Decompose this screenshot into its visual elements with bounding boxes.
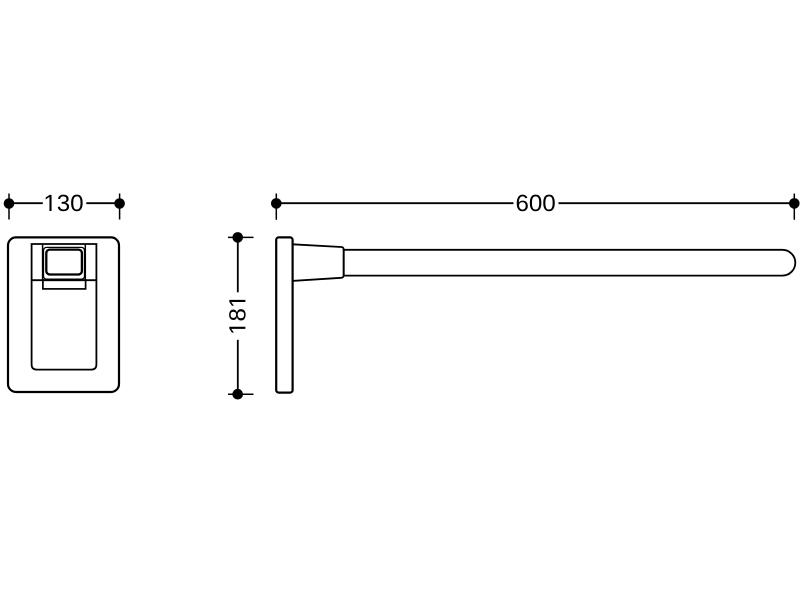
- front view: wall plate outer rounded rectangle: [8, 237, 119, 392]
- dimension 130: extension tick left: [8, 194, 10, 220]
- side view: mounting block trapezoid: [293, 244, 344, 281]
- dimension 130: dimension line left segment: [9, 202, 43, 204]
- front view: recess right vertical line: [84, 244, 86, 280]
- front view: pocket thin rounded outline: [44, 247, 85, 279]
- front view: horizontal shoulder line: [32, 279, 97, 281]
- dimension 600: extension tick right: [793, 194, 795, 220]
- dimension 130: terminator dot left: [4, 198, 15, 209]
- dimension 130: dimension line right segment: [86, 202, 119, 204]
- front view: recess left vertical line: [42, 244, 44, 280]
- dimension 181: terminator dot top: [232, 232, 243, 243]
- dimension 181: dimension line top segment: [237, 237, 239, 292]
- front view: fixing cover square (thick): [46, 250, 82, 275]
- front view: mount body (sharp top corners, rounded bottom): [32, 244, 97, 370]
- dimension 181: extension tick top: [228, 236, 254, 238]
- dimension 130: value label: [46, 195, 83, 212]
- dimension 181: value label (rotated): [229, 300, 246, 333]
- dimension 181: dimension line bottom segment: [237, 340, 239, 394]
- dimension 600: terminator dot left: [271, 198, 282, 209]
- dimension 181: terminator dot bottom: [232, 389, 243, 400]
- dimension 600: dimension line left segment: [276, 202, 513, 204]
- dimension 181: extension tick bottom: [228, 393, 254, 395]
- dimension 130: terminator dot right: [114, 198, 125, 209]
- dimension 600: extension tick left: [275, 194, 277, 220]
- dimension 130: extension tick right: [119, 194, 121, 220]
- front view: sleeve rectangle below square: [43, 280, 86, 289]
- dimension 600: dimension line right segment: [559, 202, 795, 204]
- dimension 600: value label: [517, 195, 555, 212]
- side view: rail bar with rounded end: [344, 250, 796, 276]
- dimension 600: terminator dot right: [789, 198, 800, 209]
- side view: wall plate profile: [276, 237, 292, 392]
